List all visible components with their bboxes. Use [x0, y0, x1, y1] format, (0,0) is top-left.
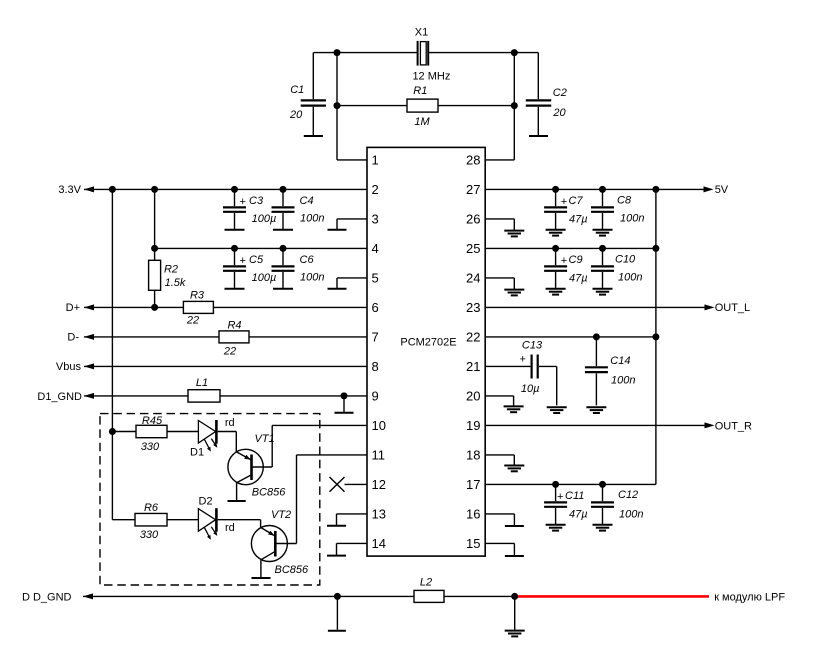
- svg-text:D+: D+: [66, 302, 80, 314]
- svg-text:R3: R3: [190, 290, 205, 302]
- svg-text:PCM2702E: PCM2702E: [400, 337, 456, 349]
- svg-text:+: +: [561, 255, 567, 267]
- svg-text:12 MHz: 12 MHz: [412, 70, 450, 82]
- svg-text:18: 18: [466, 448, 480, 463]
- svg-text:1: 1: [372, 153, 379, 168]
- svg-text:C4: C4: [300, 195, 314, 207]
- svg-text:C11: C11: [565, 490, 584, 502]
- svg-text:D1_GND: D1_GND: [37, 391, 82, 403]
- svg-text:X1: X1: [415, 26, 428, 38]
- svg-text:26: 26: [466, 212, 480, 227]
- svg-text:100µ: 100µ: [252, 272, 277, 284]
- svg-text:100n: 100n: [619, 508, 643, 520]
- svg-text:4: 4: [372, 241, 379, 256]
- svg-text:BC856: BC856: [252, 487, 287, 499]
- svg-text:100n: 100n: [300, 272, 324, 284]
- svg-text:2: 2: [372, 182, 379, 197]
- svg-text:C7: C7: [569, 195, 584, 207]
- svg-text:R1: R1: [413, 85, 427, 97]
- svg-text:47µ: 47µ: [569, 509, 588, 521]
- svg-text:11: 11: [372, 448, 386, 463]
- svg-text:C10: C10: [615, 254, 636, 266]
- svg-text:21: 21: [466, 359, 480, 374]
- svg-text:OUT_R: OUT_R: [715, 421, 752, 433]
- svg-text:5: 5: [372, 271, 379, 286]
- svg-text:47µ: 47µ: [569, 214, 588, 226]
- svg-text:+: +: [520, 353, 526, 365]
- svg-text:Vbus: Vbus: [56, 361, 82, 373]
- svg-text:20: 20: [466, 389, 480, 404]
- svg-text:27: 27: [466, 182, 480, 197]
- svg-text:к модулю LPF: к модулю LPF: [714, 592, 785, 604]
- svg-text:C6: C6: [300, 254, 315, 266]
- svg-text:C3: C3: [249, 195, 264, 207]
- svg-text:15: 15: [466, 536, 480, 551]
- svg-text:100µ: 100µ: [252, 213, 277, 225]
- svg-text:10µ: 10µ: [521, 383, 540, 395]
- svg-text:L2: L2: [420, 577, 432, 589]
- svg-text:23: 23: [466, 300, 480, 315]
- svg-text:C12: C12: [618, 489, 638, 501]
- svg-text:D2: D2: [199, 496, 213, 508]
- svg-text:+: +: [557, 491, 563, 503]
- svg-text:10: 10: [372, 418, 386, 433]
- svg-text:VT1: VT1: [255, 433, 275, 445]
- svg-text:25: 25: [466, 241, 480, 256]
- svg-text:9: 9: [372, 389, 379, 404]
- svg-text:rd: rd: [225, 522, 235, 534]
- svg-text:16: 16: [466, 507, 480, 522]
- svg-text:L1: L1: [196, 377, 208, 389]
- svg-text:24: 24: [466, 271, 480, 286]
- svg-text:1M: 1M: [414, 116, 430, 128]
- svg-text:19: 19: [466, 418, 480, 433]
- svg-text:5V: 5V: [715, 184, 729, 196]
- svg-text:VT2: VT2: [271, 509, 291, 521]
- svg-text:C1: C1: [290, 84, 304, 96]
- svg-text:330: 330: [141, 441, 160, 453]
- svg-text:28: 28: [466, 153, 480, 168]
- svg-text:R4: R4: [227, 319, 241, 331]
- svg-text:8: 8: [372, 359, 379, 374]
- svg-text:R2: R2: [164, 263, 178, 275]
- svg-text:3: 3: [372, 212, 379, 227]
- svg-text:BC856: BC856: [275, 564, 310, 576]
- svg-text:R6: R6: [144, 502, 159, 514]
- svg-text:100n: 100n: [620, 212, 644, 224]
- svg-text:20: 20: [289, 109, 303, 121]
- svg-text:7: 7: [372, 330, 379, 345]
- svg-text:C8: C8: [617, 195, 632, 207]
- svg-text:100n: 100n: [618, 272, 642, 284]
- svg-text:14: 14: [372, 536, 386, 551]
- svg-text:C9: C9: [569, 254, 583, 266]
- svg-text:13: 13: [372, 507, 386, 522]
- svg-text:C14: C14: [610, 355, 630, 367]
- svg-text:C13: C13: [522, 339, 543, 351]
- svg-text:rd: rd: [225, 417, 235, 429]
- svg-text:22: 22: [223, 346, 236, 358]
- svg-text:C2: C2: [553, 87, 567, 99]
- svg-text:12: 12: [372, 477, 386, 492]
- svg-text:D-: D-: [67, 332, 79, 344]
- svg-text:R45: R45: [142, 415, 163, 427]
- svg-text:17: 17: [466, 477, 480, 492]
- svg-text:6: 6: [372, 300, 379, 315]
- svg-text:100n: 100n: [300, 213, 324, 225]
- svg-text:47µ: 47µ: [569, 273, 588, 285]
- svg-text:OUT_L: OUT_L: [715, 302, 750, 314]
- svg-text:330: 330: [140, 529, 159, 541]
- svg-text:100n: 100n: [611, 374, 635, 386]
- svg-text:22: 22: [466, 330, 480, 345]
- svg-text:+: +: [561, 196, 567, 208]
- svg-text:3.3V: 3.3V: [58, 184, 81, 196]
- svg-text:+: +: [240, 255, 246, 267]
- svg-text:20: 20: [552, 107, 566, 119]
- svg-text:22: 22: [186, 314, 199, 326]
- svg-text:+: +: [240, 196, 246, 208]
- svg-text:D1: D1: [190, 447, 204, 459]
- svg-text:1.5k: 1.5k: [165, 277, 186, 289]
- svg-text:C5: C5: [249, 254, 264, 266]
- svg-text:D D_GND: D D_GND: [22, 592, 72, 604]
